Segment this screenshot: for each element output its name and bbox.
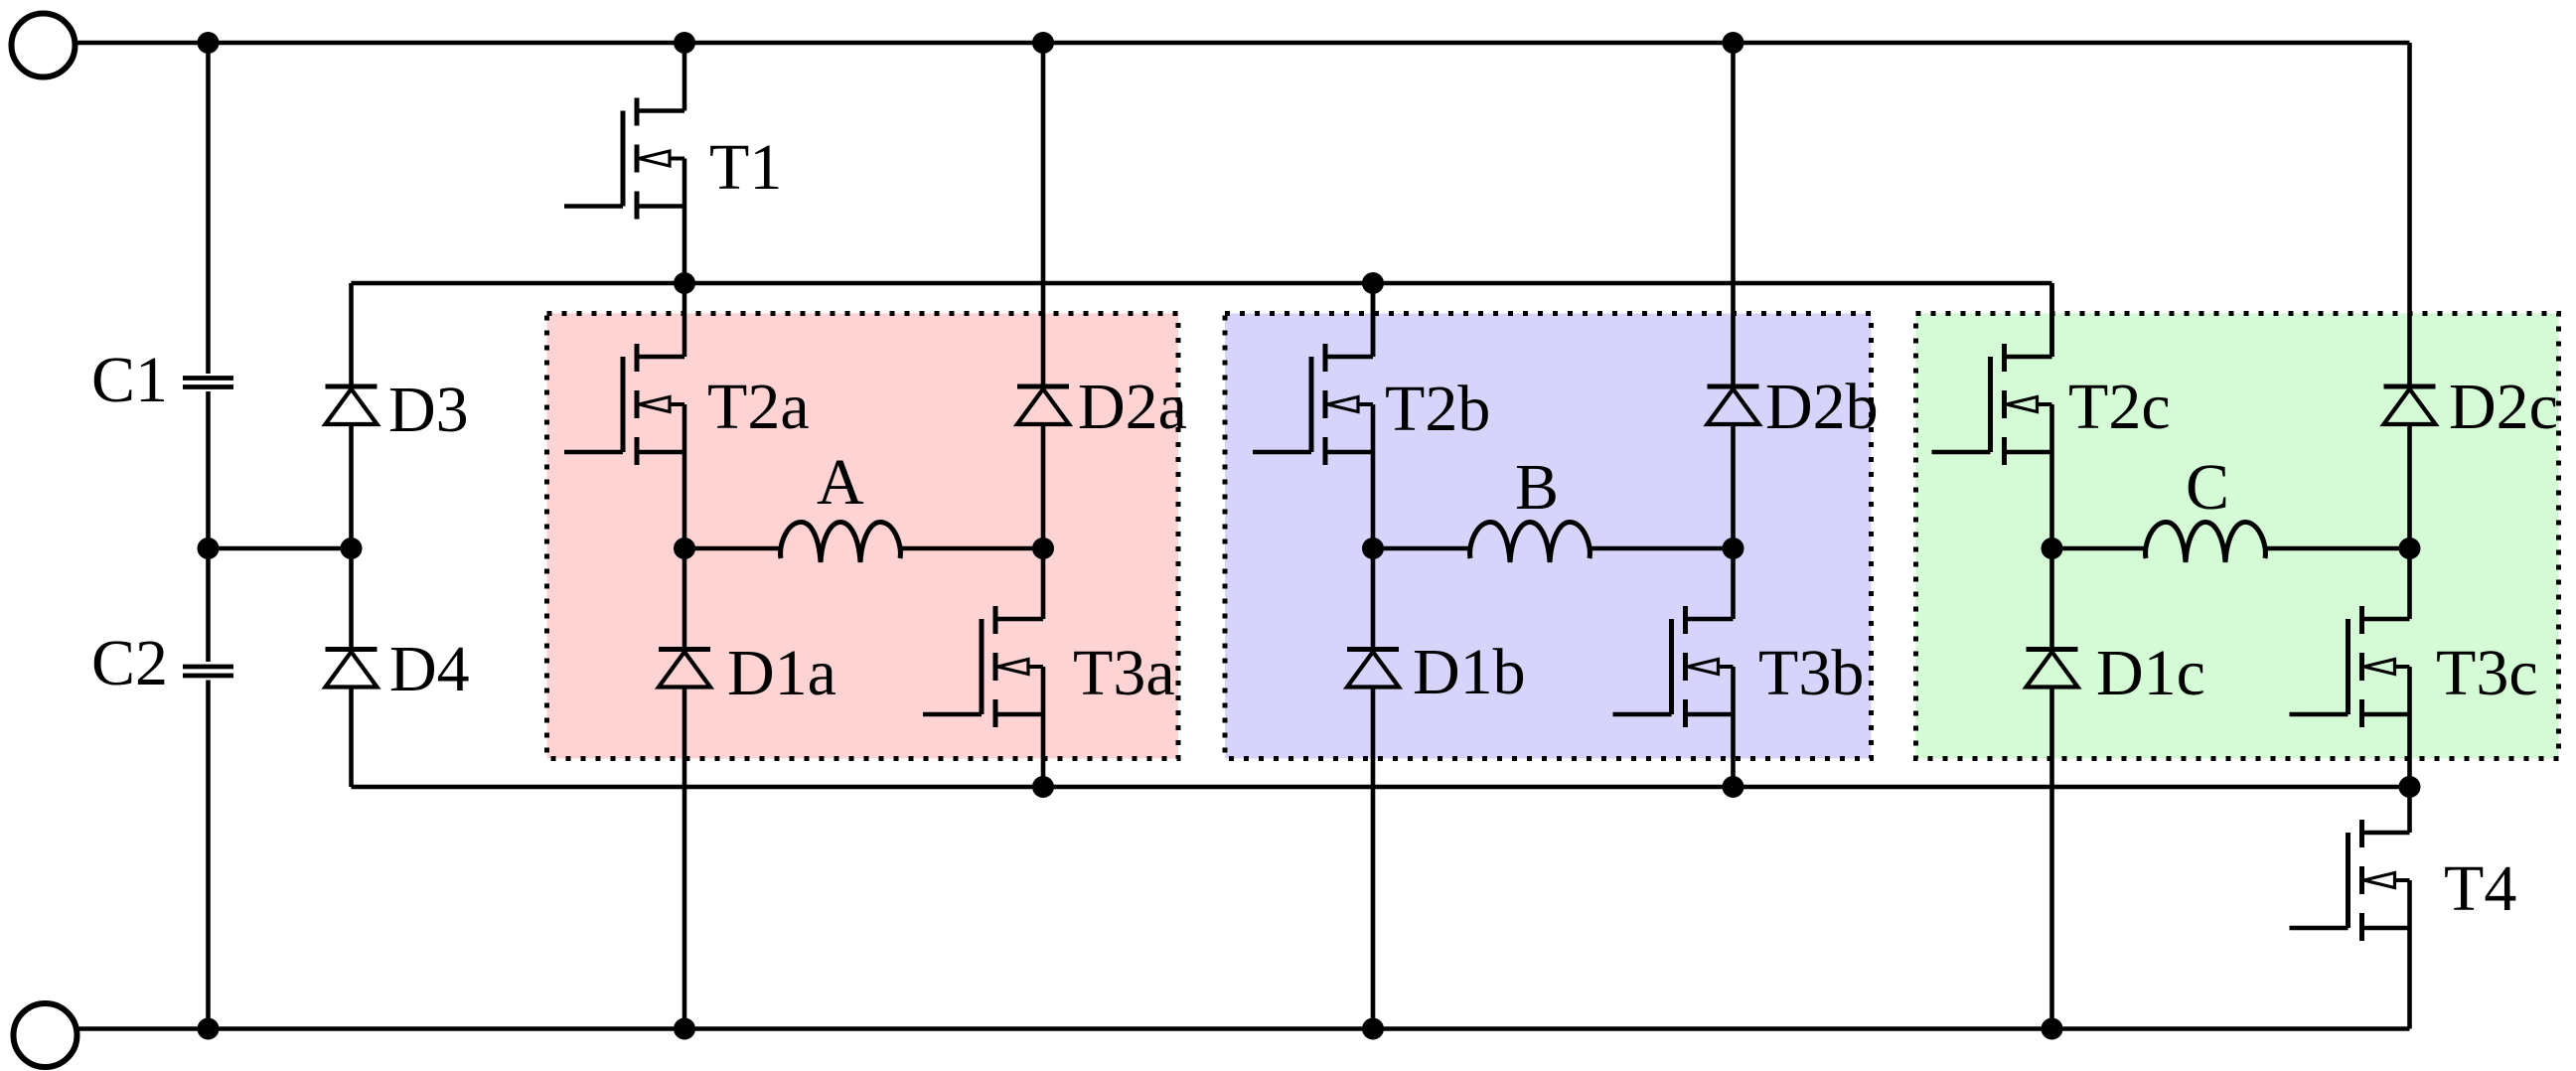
svg-text:T3a: T3a <box>1073 637 1175 709</box>
svg-text:C: C <box>2186 451 2229 524</box>
svg-text:D3: D3 <box>388 374 469 446</box>
svg-text:T1: T1 <box>709 131 782 204</box>
svg-text:T2c: T2c <box>2068 371 2171 443</box>
svg-text:D4: D4 <box>389 633 470 705</box>
svg-text:D1c: D1c <box>2096 637 2205 709</box>
svg-text:T3c: T3c <box>2436 637 2538 709</box>
svg-text:D2a: D2a <box>1078 371 1187 443</box>
svg-text:D1b: D1b <box>1413 636 1526 708</box>
svg-text:A: A <box>817 446 864 519</box>
svg-text:T4: T4 <box>2444 852 2516 925</box>
svg-text:D2c: D2c <box>2449 371 2558 443</box>
svg-text:T2b: T2b <box>1385 373 1490 445</box>
svg-text:B: B <box>1515 451 1559 524</box>
svg-text:C1: C1 <box>91 344 168 416</box>
svg-text:D1a: D1a <box>727 637 836 709</box>
svg-text:D2b: D2b <box>1765 371 1879 443</box>
svg-text:C2: C2 <box>91 627 168 699</box>
svg-text:T3b: T3b <box>1758 637 1864 709</box>
svg-text:T2a: T2a <box>707 371 810 443</box>
